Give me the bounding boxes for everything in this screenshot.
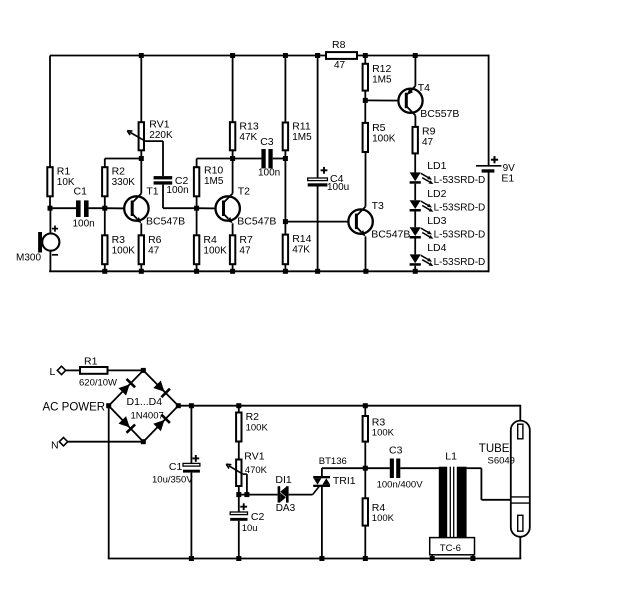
svg-text:R2: R2 xyxy=(112,166,126,178)
svg-text:100u: 100u xyxy=(327,182,349,193)
svg-text:47K: 47K xyxy=(239,132,257,143)
transistor T4 BC557B xyxy=(398,56,459,127)
wire R10 top xyxy=(197,159,233,168)
node C1 ground xyxy=(189,556,194,561)
transistor T3 BC547B xyxy=(348,152,410,271)
svg-text:100K: 100K xyxy=(372,428,395,439)
svg-text:BT136: BT136 xyxy=(319,456,347,467)
LED LD3 L-53SRD-D xyxy=(410,215,486,241)
svg-text:R6: R6 xyxy=(148,234,162,246)
wire top supply rail (amp), left of R8 xyxy=(50,55,326,57)
wire DI1 to TRI1 gate xyxy=(289,487,319,495)
diode D1 (bridge) xyxy=(119,379,136,396)
potentiometer RV1 (amp) 220K xyxy=(127,119,173,151)
node bridge left corner xyxy=(106,403,111,408)
svg-text:R8: R8 xyxy=(332,39,346,51)
node T3 base (R11/R14) xyxy=(283,219,288,224)
node R12 top rail xyxy=(363,53,368,58)
diode D4 (bridge) xyxy=(153,415,170,432)
node T2 base (C2/R10/R4) xyxy=(194,206,199,211)
capacitor C2 (amp) 100n xyxy=(154,175,189,196)
wire M300 to ground rail xyxy=(49,251,51,272)
svg-text:R4: R4 xyxy=(372,502,386,514)
svg-text:S6049: S6049 xyxy=(488,456,515,467)
wire R13 node to C3 xyxy=(233,158,262,160)
svg-text:330K: 330K xyxy=(112,177,136,188)
LED LD4 L-53SRD-D xyxy=(410,242,486,268)
wire R3 node to R4 xyxy=(364,468,366,498)
wire LD1 to LD2 xyxy=(414,184,416,201)
wire R2 to T1 base node xyxy=(104,196,106,208)
label D1...D4 1N4007 xyxy=(127,396,164,421)
wire T4 base xyxy=(365,99,406,101)
svg-text:R7: R7 xyxy=(239,234,253,246)
svg-text:L-53SRD-D: L-53SRD-D xyxy=(434,175,486,186)
svg-text:R2: R2 xyxy=(246,411,260,423)
wire R3 down xyxy=(364,442,366,469)
svg-text:47: 47 xyxy=(422,137,434,148)
svg-text:100K: 100K xyxy=(203,245,227,256)
svg-text:E1: E1 xyxy=(501,173,514,185)
wire input node to C1 xyxy=(50,207,76,209)
svg-text:R1: R1 xyxy=(57,166,71,178)
wire DC+ rail xyxy=(178,405,520,407)
capacitor C1 (psu) 10u/350V xyxy=(152,455,200,485)
node C1 DC rail xyxy=(189,403,194,408)
svg-text:L-53SRD-D: L-53SRD-D xyxy=(434,230,486,241)
svg-text:DI1: DI1 xyxy=(275,474,292,486)
node RV1 top rail xyxy=(139,53,144,58)
svg-text:100K: 100K xyxy=(372,134,396,145)
svg-text:L-53SRD-D: L-53SRD-D xyxy=(434,203,486,214)
tube S6049 envelope xyxy=(479,421,530,537)
svg-text:R4: R4 xyxy=(203,234,217,246)
svg-text:10u/350V: 10u/350V xyxy=(152,474,193,485)
svg-text:BC547B: BC547B xyxy=(146,215,185,227)
wire LD4 to ground rail xyxy=(414,266,416,272)
svg-text:100K: 100K xyxy=(246,423,269,434)
wire C2 to ground rail xyxy=(238,521,240,559)
wire R2 to RV1 xyxy=(238,442,240,460)
svg-text:T2: T2 xyxy=(238,186,250,198)
node R8 left rail xyxy=(315,53,320,58)
wire battery positive lead xyxy=(488,55,490,166)
svg-text:TRI1: TRI1 xyxy=(333,475,356,487)
wire R1 to input node xyxy=(49,196,51,208)
wire T3 base xyxy=(285,221,356,223)
wire T4 base node to R5 xyxy=(364,100,366,123)
svg-text:R3: R3 xyxy=(372,416,386,428)
svg-text:470K: 470K xyxy=(245,465,268,476)
wire N to bridge xyxy=(68,441,144,443)
svg-text:R9: R9 xyxy=(422,125,436,137)
node T3 emitter ground xyxy=(363,269,368,274)
terminal N xyxy=(51,438,68,452)
node R11/C3 xyxy=(283,156,288,161)
LED LD1 L-53SRD-D xyxy=(410,160,486,186)
resistor R11 (amp) xyxy=(283,121,312,151)
resistor R3 (psu) xyxy=(363,416,395,442)
wire bridge edge left-top xyxy=(109,370,144,405)
transistor T2 BC547B xyxy=(216,159,277,236)
diode D3 (bridge) xyxy=(119,416,136,433)
svg-text:C3: C3 xyxy=(260,136,274,148)
label AC POWER xyxy=(43,402,106,414)
svg-text:1M5: 1M5 xyxy=(292,132,312,143)
svg-text:T3: T3 xyxy=(372,200,384,212)
triac TRI1 BT136 xyxy=(313,456,356,559)
wire top rail to R12 xyxy=(364,56,366,64)
wire R9 to LD1 xyxy=(414,153,416,172)
svg-text:10u: 10u xyxy=(242,523,258,534)
node R14 ground xyxy=(283,269,288,274)
wire DC rail to R2 xyxy=(238,406,240,413)
diac DI1 DA3 xyxy=(275,474,295,514)
svg-text:T4: T4 xyxy=(418,82,430,94)
node R3/TRI1/C3 xyxy=(363,466,368,471)
capacitor C1 (amp) 100n xyxy=(73,185,95,229)
wire C1 to T1 base node xyxy=(89,207,105,209)
node R6 ground xyxy=(139,269,144,274)
svg-text:R14: R14 xyxy=(292,233,311,245)
svg-text:N: N xyxy=(51,440,59,452)
resistor R4 (amp) xyxy=(194,234,227,264)
resistor R8 (amp) xyxy=(326,39,357,71)
svg-text:100n: 100n xyxy=(258,168,280,179)
wire R4 to ground rail xyxy=(364,526,366,559)
transformer core xyxy=(450,467,453,538)
wire top rail to RV1 xyxy=(140,56,142,123)
wire R4 to ground rail xyxy=(196,264,198,271)
resistor R9 (amp) xyxy=(413,125,436,153)
svg-text:LD1: LD1 xyxy=(427,160,446,172)
svg-text:C1: C1 xyxy=(74,185,88,197)
wire bottom ground rail (amp) xyxy=(49,270,489,272)
wire RV1 bottom to node xyxy=(140,150,142,158)
wire bridge edge left-bottom xyxy=(109,406,144,442)
svg-text:C1: C1 xyxy=(169,461,183,473)
node TC-6 left ground xyxy=(430,556,435,561)
resistor R1 (psu) 620/10W xyxy=(79,355,117,388)
wire left rail to R1 xyxy=(49,56,51,168)
node RV1/R2/T1 collector xyxy=(139,156,144,161)
inductor L1 secondary winding xyxy=(445,451,466,538)
resistor R10 (amp) xyxy=(194,164,224,196)
svg-text:T1: T1 xyxy=(146,186,158,198)
node R11 top rail xyxy=(283,53,288,58)
wire TRI1 MT2 to R3 node xyxy=(322,467,390,469)
terminal L xyxy=(50,366,66,378)
svg-text:C3: C3 xyxy=(389,445,403,457)
wire C2 to T2 base node xyxy=(163,185,197,209)
wire R10 to T2 base node xyxy=(196,196,198,208)
wire LD2 to LD3 xyxy=(414,212,416,228)
wire tube bottom to ground rail xyxy=(519,537,521,559)
resistor R7 (amp) xyxy=(230,234,253,264)
svg-text:1N4007: 1N4007 xyxy=(131,410,164,421)
svg-text:100n/400V: 100n/400V xyxy=(377,479,424,490)
svg-text:DA3: DA3 xyxy=(276,503,296,514)
transformer box TC-6 xyxy=(430,538,475,555)
svg-text:D1...D4: D1...D4 xyxy=(127,396,163,408)
node C2 ground xyxy=(236,556,241,561)
microphone M300 xyxy=(16,226,59,264)
svg-text:220K: 220K xyxy=(149,130,173,141)
wire DC rail to C1 xyxy=(190,406,192,464)
svg-text:LD3: LD3 xyxy=(427,215,446,227)
wire ground rail (psu) xyxy=(108,558,521,560)
wire RV1 wiper to C2 xyxy=(145,141,163,176)
svg-text:R1: R1 xyxy=(84,355,98,367)
transistor T1 BC547B xyxy=(124,159,185,236)
svg-text:RV1: RV1 xyxy=(244,451,264,463)
wire bridge edge bottom-right xyxy=(143,406,178,442)
diode D2 (bridge) xyxy=(153,381,170,398)
wire top rail to R11 xyxy=(284,56,286,123)
svg-text:RV1: RV1 xyxy=(149,119,169,131)
svg-text:100n: 100n xyxy=(166,185,188,196)
node R3 DC rail xyxy=(363,403,368,408)
wire DC+ rail down to tube top xyxy=(519,405,521,421)
svg-text:47: 47 xyxy=(239,245,251,256)
svg-text:620/10W: 620/10W xyxy=(79,378,117,389)
svg-text:M300: M300 xyxy=(16,252,41,263)
wire R7 to ground rail xyxy=(232,264,234,271)
wire C1 to ground rail xyxy=(190,473,192,559)
node RV1 wiper join xyxy=(244,492,249,497)
wire RV1 node to C2 xyxy=(238,495,240,512)
wire M300 to input node xyxy=(49,208,51,233)
node input (R1/C1/M300) xyxy=(48,206,53,211)
svg-text:R11: R11 xyxy=(292,121,311,133)
wire DC rail to R3 xyxy=(364,406,366,416)
node TC-6 right ground xyxy=(470,556,475,561)
node bridge right corner xyxy=(176,403,181,408)
resistor R2 (psu) xyxy=(236,411,268,442)
wire T2 base xyxy=(197,207,224,209)
wire T1 base node to R3 xyxy=(104,208,106,235)
node T4 emitter rail xyxy=(413,53,418,58)
wire R6 to ground rail xyxy=(140,264,142,271)
node C4 ground xyxy=(315,269,320,274)
wire R11 node down to T3 base node xyxy=(284,159,286,222)
potentiometer RV1 (psu) 470K xyxy=(226,451,267,486)
wire R14 to ground rail xyxy=(284,264,286,271)
svg-text:LD4: LD4 xyxy=(427,242,446,254)
wire R11 bottom xyxy=(284,150,286,158)
svg-text:R3: R3 xyxy=(112,234,126,246)
svg-text:100K: 100K xyxy=(372,513,395,524)
svg-text:L: L xyxy=(50,366,56,378)
svg-text:100K: 100K xyxy=(112,245,136,256)
node R13 top rail xyxy=(230,53,235,58)
capacitor C3 (amp) 100n xyxy=(258,136,280,178)
wire bridge left corner to ground rail xyxy=(108,406,110,559)
svg-text:100n: 100n xyxy=(73,218,95,229)
svg-text:L-53SRD-D: L-53SRD-D xyxy=(434,257,486,268)
resistor R5 (amp) xyxy=(363,122,396,152)
node LD4 ground xyxy=(413,269,418,274)
svg-text:10K: 10K xyxy=(57,177,75,188)
node TRI1 ground xyxy=(319,556,324,561)
node R2 DC rail xyxy=(236,403,241,408)
wire L to R1 xyxy=(66,369,80,371)
node bridge top corner xyxy=(141,368,146,373)
resistor R6 (amp) xyxy=(139,234,162,264)
svg-text:LD2: LD2 xyxy=(427,188,446,200)
node C4 top rail xyxy=(315,53,320,58)
wire top rail to R13 xyxy=(232,56,234,123)
wire gate line RV1 to DI1 xyxy=(239,494,278,496)
wire C3 to R11 node xyxy=(273,158,286,160)
wire battery negative lead xyxy=(488,172,490,272)
node T4 base (R12/R5) xyxy=(363,98,368,103)
wire L1 secondary to tube xyxy=(467,468,511,500)
LED LD2 L-53SRD-D xyxy=(410,188,486,214)
svg-text:TC-6: TC-6 xyxy=(440,543,461,554)
wire R3 to ground rail xyxy=(104,264,106,271)
resistor R12 (amp) xyxy=(363,63,392,91)
svg-text:C2: C2 xyxy=(251,511,265,523)
wire T2 base node to R4 xyxy=(196,208,198,235)
wire TC-6 left leg xyxy=(431,555,433,559)
svg-text:R5: R5 xyxy=(372,122,386,134)
wire T1 base xyxy=(105,207,132,209)
resistor R14 (amp) xyxy=(283,233,312,264)
svg-text:TUBE: TUBE xyxy=(479,443,510,455)
wire top rail to C4 xyxy=(317,56,319,179)
resistor R1 (amp) xyxy=(47,166,75,197)
svg-text:1M5: 1M5 xyxy=(204,176,224,187)
svg-text:BC547B: BC547B xyxy=(237,215,276,227)
wire RV1 bottom xyxy=(238,486,240,495)
wire LD3 to LD4 xyxy=(414,239,416,255)
node R4 ground xyxy=(194,269,199,274)
resistor R2 (amp) xyxy=(102,166,135,197)
svg-text:1M5: 1M5 xyxy=(372,74,392,85)
resistor R4 (psu) xyxy=(363,498,395,525)
wire T3 base node to R14 xyxy=(284,222,286,235)
inductor L1 primary winding xyxy=(439,467,447,538)
wire R12 to T4 base node xyxy=(364,91,366,101)
wire TC-6 right leg xyxy=(472,555,474,559)
capacitor C2 (psu) 10u xyxy=(230,503,264,534)
svg-text:47: 47 xyxy=(334,60,346,71)
wire R1 to bridge xyxy=(108,369,144,371)
svg-text:R10: R10 xyxy=(204,164,223,176)
svg-text:R12: R12 xyxy=(372,63,391,75)
wire top supply rail (amp), right of R8 xyxy=(357,55,490,57)
wire C4 to ground rail xyxy=(317,187,319,272)
node R13/T2 collector/C3 xyxy=(230,156,235,161)
node RV1 bottom xyxy=(236,492,241,497)
node T1 base (C1/R2/R3) xyxy=(102,206,107,211)
node R3 ground xyxy=(102,269,107,274)
svg-text:L1: L1 xyxy=(445,451,457,463)
capacitor C3 (psu) 100n/400V xyxy=(377,445,424,491)
wire RV1 wiper down xyxy=(243,474,247,495)
node bridge bottom corner xyxy=(141,439,146,444)
svg-text:BC557B: BC557B xyxy=(420,108,459,120)
wire bridge edge top-right xyxy=(143,370,178,405)
wire C3 to L1 xyxy=(400,467,439,469)
svg-text:47K: 47K xyxy=(292,245,310,256)
svg-text:BC547B: BC547B xyxy=(371,229,410,241)
resistor R3 (amp) xyxy=(102,234,135,264)
svg-text:AC POWER: AC POWER xyxy=(43,402,106,414)
capacitor C4 (amp) 100u electrolytic xyxy=(308,167,350,193)
wire R13 bottom xyxy=(232,150,234,158)
wire R2 top to RV1 node xyxy=(105,159,142,168)
resistor R13 (amp) xyxy=(230,121,259,151)
node R4 ground xyxy=(363,556,368,561)
svg-text:R13: R13 xyxy=(239,121,258,133)
node R7 ground xyxy=(230,269,235,274)
svg-text:47: 47 xyxy=(148,245,160,256)
battery E1 9V xyxy=(476,156,515,185)
